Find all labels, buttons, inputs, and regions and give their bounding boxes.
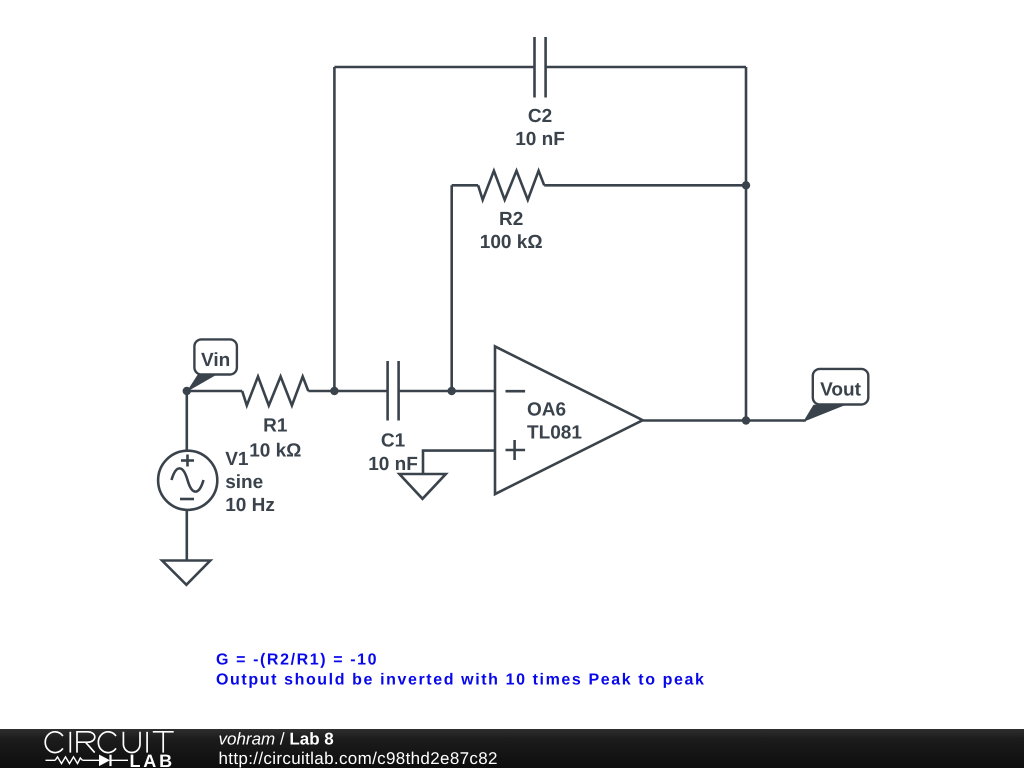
label R1 designator [263,416,288,437]
wire: C2 right plate to right rail [546,66,746,69]
label V1 frequency 10 Hz [225,495,275,516]
svg-text:10 Hz: 10 Hz [225,495,275,516]
Vin flag box [194,339,237,374]
wire: right rail down from C2 to R2 node [745,67,748,185]
Vin flag pointer [186,375,216,392]
voltage source V1 sine symbol [172,468,204,491]
Vout flag pointer [803,405,846,422]
node label Vout text [820,379,861,400]
svg-text:http://circuitlab.com/c98thd2e: http://circuitlab.com/c98thd2e87c82 [219,749,498,768]
wire: node A up to top feedback rail [333,67,336,391]
voltage source V1 minus marker [180,498,194,501]
op-amp inverting input marker (minus) [506,390,526,393]
svg-text:OA6: OA6 [527,400,566,421]
wire: node B up to R2 [450,185,453,391]
wire: R2 right lead to right rail [544,184,746,187]
capacitor C1 [388,361,399,421]
voltage source V1 circle [158,451,217,510]
wire: R1 right lead to node A [308,390,334,393]
svg-text:Vout: Vout [820,379,861,400]
wire: node A to C1 left plate [334,390,387,393]
ground below V1 [162,561,210,585]
wire: op-amp non-inverting input to ground corner [423,451,495,474]
resistor R1 [242,377,308,406]
label R2 value 100 kOhm [480,232,543,253]
label C2 value 10 nF [515,129,565,150]
label V1 type sine [225,472,263,493]
svg-text:sine: sine [225,472,263,493]
resistor R2 [478,171,544,200]
node label Vin text [201,350,230,371]
wire: node B to op-amp inverting input [452,390,495,393]
op-amp U1 OA6 triangle [495,346,643,494]
Vout flag box [813,369,869,405]
CircuitLab logo wordmark LAB [130,751,175,768]
label R2 designator [499,209,523,230]
wire: R2 left lead [452,184,478,187]
svg-text:Output should be inverted with: Output should be inverted with 10 times … [216,672,706,689]
wire: op-amp output to output node [643,419,746,422]
CircuitLab logo wordmark CIRCUIT [45,732,173,753]
wire: C1 right plate to node B [399,390,452,393]
junction: feedback node at R2 right [742,181,750,189]
svg-text:Vin: Vin [201,350,230,371]
capacitor C2 [535,37,546,98]
voltage source V1 plus marker [181,455,194,467]
CircuitLab logo resistor-diode glyph [46,755,129,767]
junction: node B (C1 / R2 / op-amp input) [448,387,456,395]
label C1 value 10 nF [368,454,418,475]
svg-text:10 nF: 10 nF [515,129,565,150]
label op-amp designator OA6 [527,400,566,421]
svg-text:R2: R2 [499,209,523,230]
label R1 value 10 kOhm [249,441,301,462]
wire: Vin node to R1 left lead [187,390,242,393]
svg-text:R1: R1 [263,416,288,437]
op-amp non-inverting input marker (plus) [506,440,526,460]
label V1 designator [225,449,249,470]
wire: Vin node down to V1 positive terminal [186,391,189,451]
annotation: output description [216,672,706,689]
svg-text:vohram / Lab 8: vohram / Lab 8 [219,729,334,748]
label op-amp part TL081 [527,423,582,444]
footer bar [0,729,1024,768]
junction: output node [742,416,750,424]
svg-text:10 kΩ: 10 kΩ [249,441,301,462]
footer author and title: vohram / Lab 8 [219,729,334,748]
ground at op-amp non-inverting input [399,474,445,499]
annotation: gain formula [216,651,378,668]
junction: node A (R1 / C1 / C2 rail) [330,387,338,395]
svg-text:10 nF: 10 nF [368,454,418,475]
wire: V1 negative terminal to ground [186,510,189,561]
svg-text:C2: C2 [528,106,552,127]
svg-text:TL081: TL081 [527,423,582,444]
svg-text:C1: C1 [381,431,406,452]
footer url [219,749,498,768]
label C1 designator [381,431,406,452]
wire: top rail to C2 left plate [334,66,534,69]
svg-text:100 kΩ: 100 kΩ [480,232,543,253]
svg-text:V1: V1 [225,449,249,470]
svg-text:LAB: LAB [130,751,175,768]
svg-text:G = -(R2/R1) = -10: G = -(R2/R1) = -10 [216,651,378,668]
wire: right rail down from R2 node to output node [745,185,748,420]
label C2 designator [528,106,552,127]
wire: output node to Vout flag [746,419,806,422]
junction: Vin node [183,387,191,395]
